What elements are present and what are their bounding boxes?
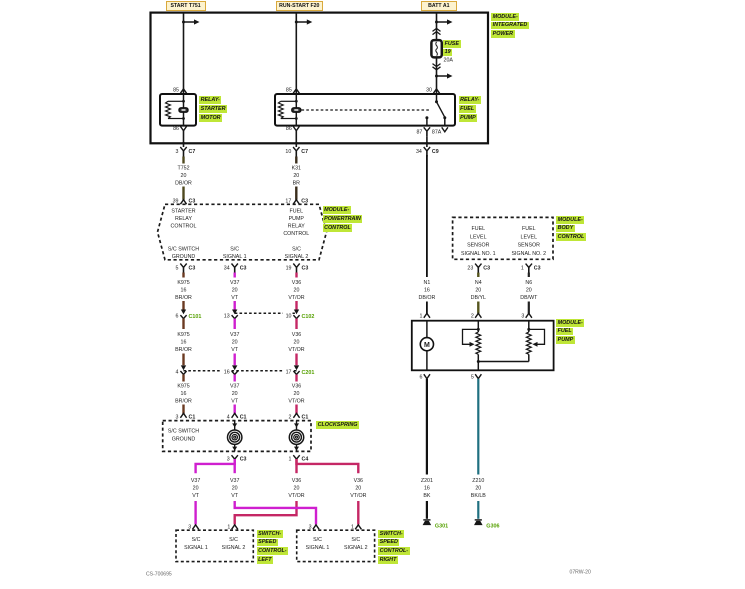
svg-text:N4: N4 — [475, 280, 482, 286]
svg-text:C3: C3 — [302, 265, 309, 271]
svg-text:RELAY: RELAY — [288, 223, 305, 229]
svg-text:LEVEL: LEVEL — [521, 234, 538, 240]
svg-text:V37: V37 — [230, 383, 239, 389]
svg-text:VT/OR: VT/OR — [288, 398, 304, 404]
svg-text:C7: C7 — [189, 149, 196, 155]
svg-text:S/C: S/C — [229, 537, 238, 543]
svg-text:DB/WT: DB/WT — [520, 295, 538, 301]
svg-text:20: 20 — [232, 485, 238, 491]
svg-text:20: 20 — [193, 485, 199, 491]
svg-text:Z201: Z201 — [421, 478, 433, 484]
svg-text:20: 20 — [526, 287, 532, 293]
svg-text:20: 20 — [294, 287, 300, 293]
svg-text:1: 1 — [289, 456, 292, 462]
svg-text:K975: K975 — [177, 280, 189, 286]
svg-text:16: 16 — [181, 287, 187, 293]
svg-text:17: 17 — [286, 369, 292, 375]
svg-text:V36: V36 — [354, 478, 363, 484]
svg-text:86: 86 — [173, 126, 179, 132]
svg-text:16: 16 — [424, 485, 430, 491]
svg-text:C3: C3 — [240, 265, 247, 271]
svg-text:K975: K975 — [177, 383, 189, 389]
svg-text:20: 20 — [294, 391, 300, 397]
svg-text:C1: C1 — [302, 414, 309, 420]
svg-text:07RW-20: 07RW-20 — [570, 570, 591, 576]
svg-text:PUMP: PUMP — [289, 216, 305, 222]
svg-text:2: 2 — [471, 314, 474, 320]
svg-text:C1: C1 — [189, 414, 196, 420]
svg-text:20: 20 — [475, 485, 481, 491]
svg-text:16: 16 — [424, 287, 430, 293]
svg-text:SENSOR: SENSOR — [467, 243, 490, 249]
svg-text:FUEL: FUEL — [522, 226, 536, 232]
svg-text:VT/OR: VT/OR — [350, 493, 366, 499]
svg-text:STARTER: STARTER — [171, 209, 195, 215]
svg-text:SIGNAL 2: SIGNAL 2 — [344, 545, 368, 551]
svg-text:C3: C3 — [240, 456, 247, 462]
svg-text:SIGNAL 1: SIGNAL 1 — [223, 254, 247, 260]
svg-text:2: 2 — [289, 414, 292, 420]
svg-text:30: 30 — [426, 88, 432, 94]
svg-text:DB/YL: DB/YL — [471, 295, 486, 301]
svg-text:16: 16 — [181, 391, 187, 397]
svg-text:85: 85 — [286, 88, 292, 94]
svg-text:4: 4 — [176, 369, 179, 375]
svg-text:C3: C3 — [534, 265, 541, 271]
svg-text:SIGNAL 2: SIGNAL 2 — [285, 254, 309, 260]
svg-text:VT: VT — [231, 493, 239, 499]
svg-text:20: 20 — [181, 173, 187, 179]
svg-text:3: 3 — [227, 456, 230, 462]
svg-text:VT/OR: VT/OR — [288, 493, 304, 499]
svg-text:DB/OR: DB/OR — [175, 180, 192, 186]
svg-text:20: 20 — [294, 485, 300, 491]
svg-text:S/C: S/C — [292, 246, 301, 252]
svg-text:SIGNAL NO. 2: SIGNAL NO. 2 — [512, 251, 547, 257]
svg-text:20: 20 — [293, 173, 299, 179]
svg-text:S/C: S/C — [230, 246, 239, 252]
svg-text:20: 20 — [232, 339, 238, 345]
svg-text:BK/LB: BK/LB — [471, 493, 486, 499]
svg-text:BR/OR: BR/OR — [175, 398, 192, 404]
svg-text:C3: C3 — [301, 198, 308, 204]
svg-text:SIGNAL 1: SIGNAL 1 — [184, 545, 208, 551]
svg-text:3: 3 — [309, 525, 312, 531]
svg-text:16: 16 — [224, 369, 230, 375]
svg-text:S/C: S/C — [192, 537, 201, 543]
svg-text:1: 1 — [419, 314, 422, 320]
svg-text:20: 20 — [475, 287, 481, 293]
svg-text:LEVEL: LEVEL — [470, 234, 487, 240]
svg-text:SIGNAL 1: SIGNAL 1 — [306, 545, 330, 551]
svg-text:34: 34 — [224, 265, 230, 271]
svg-text:VT/OR: VT/OR — [288, 295, 304, 301]
svg-text:V36: V36 — [292, 280, 301, 286]
svg-text:S/C: S/C — [313, 537, 322, 543]
svg-text:16: 16 — [181, 339, 187, 345]
svg-text:K31: K31 — [292, 165, 301, 171]
svg-text:3: 3 — [521, 314, 524, 320]
svg-text:87A: 87A — [432, 130, 442, 136]
svg-text:87: 87 — [416, 130, 422, 136]
svg-text:VT: VT — [192, 493, 200, 499]
svg-text:C3: C3 — [189, 198, 196, 204]
svg-text:20: 20 — [355, 485, 361, 491]
svg-text:S/C SWITCH: S/C SWITCH — [168, 246, 199, 252]
svg-text:N1: N1 — [424, 280, 431, 286]
svg-text:VT: VT — [231, 295, 239, 301]
svg-text:20: 20 — [232, 287, 238, 293]
svg-text:VT: VT — [231, 398, 239, 404]
svg-text:17: 17 — [285, 198, 291, 204]
svg-text:86: 86 — [286, 126, 292, 132]
svg-text:C4: C4 — [302, 456, 309, 462]
svg-text:V36: V36 — [292, 478, 301, 484]
svg-text:85: 85 — [173, 88, 179, 94]
svg-text:3: 3 — [176, 149, 179, 155]
svg-text:V37: V37 — [230, 478, 239, 484]
svg-text:RELAY: RELAY — [175, 216, 192, 222]
svg-text:C101: C101 — [189, 314, 202, 320]
svg-text:39: 39 — [173, 198, 179, 204]
svg-text:BK: BK — [423, 493, 431, 499]
svg-text:C3: C3 — [189, 265, 196, 271]
svg-text:BR: BR — [293, 180, 301, 186]
svg-text:FUEL: FUEL — [472, 226, 486, 232]
svg-text:C201: C201 — [302, 370, 315, 376]
svg-text:S/C SWITCH: S/C SWITCH — [168, 428, 199, 434]
svg-text:BR/OR: BR/OR — [175, 347, 192, 353]
svg-text:6: 6 — [176, 314, 179, 320]
svg-text:GROUND: GROUND — [172, 436, 196, 442]
svg-text:20: 20 — [232, 391, 238, 397]
svg-text:C102: C102 — [302, 314, 315, 320]
svg-text:FUEL: FUEL — [290, 209, 304, 215]
svg-text:C9: C9 — [432, 149, 439, 155]
svg-text:SIGNAL NO. 1: SIGNAL NO. 1 — [461, 251, 496, 257]
svg-text:T752: T752 — [177, 165, 189, 171]
svg-text:VT/OR: VT/OR — [288, 347, 304, 353]
svg-text:V37: V37 — [230, 280, 239, 286]
svg-text:C3: C3 — [483, 265, 490, 271]
svg-text:13: 13 — [224, 314, 230, 320]
svg-text:6: 6 — [419, 375, 422, 381]
svg-text:19: 19 — [286, 265, 292, 271]
svg-text:GROUND: GROUND — [172, 254, 196, 260]
svg-text:3: 3 — [188, 525, 191, 531]
svg-text:V36: V36 — [292, 383, 301, 389]
svg-text:5: 5 — [471, 375, 474, 381]
svg-text:V37: V37 — [230, 332, 239, 338]
svg-text:3: 3 — [176, 414, 179, 420]
svg-text:Z210: Z210 — [472, 478, 484, 484]
svg-text:C7: C7 — [301, 149, 308, 155]
svg-text:SIGNAL 2: SIGNAL 2 — [222, 545, 246, 551]
svg-text:DB/OR: DB/OR — [419, 295, 436, 301]
svg-text:1: 1 — [521, 265, 524, 271]
svg-text:20A: 20A — [444, 58, 454, 64]
svg-text:G301: G301 — [435, 523, 448, 529]
svg-text:C1: C1 — [240, 414, 247, 420]
svg-text:V37: V37 — [191, 478, 200, 484]
svg-text:4: 4 — [227, 414, 230, 420]
svg-text:23: 23 — [467, 265, 473, 271]
svg-text:N6: N6 — [525, 280, 532, 286]
svg-text:G306: G306 — [486, 523, 499, 529]
svg-text:M: M — [424, 342, 430, 349]
svg-text:BR/OR: BR/OR — [175, 295, 192, 301]
svg-text:1: 1 — [227, 525, 230, 531]
svg-text:CONTROL: CONTROL — [171, 223, 197, 229]
svg-text:1: 1 — [351, 525, 354, 531]
svg-text:SENSOR: SENSOR — [518, 243, 541, 249]
svg-text:20: 20 — [294, 339, 300, 345]
svg-text:V36: V36 — [292, 332, 301, 338]
svg-text:S/C: S/C — [351, 537, 360, 543]
svg-text:10: 10 — [285, 149, 291, 155]
svg-text:VT: VT — [231, 347, 239, 353]
svg-text:5: 5 — [176, 265, 179, 271]
svg-text:CONTROL: CONTROL — [283, 231, 309, 237]
svg-text:34: 34 — [416, 149, 422, 155]
svg-text:K975: K975 — [177, 332, 189, 338]
svg-text:CS-700695: CS-700695 — [146, 572, 172, 578]
svg-text:10: 10 — [286, 314, 292, 320]
